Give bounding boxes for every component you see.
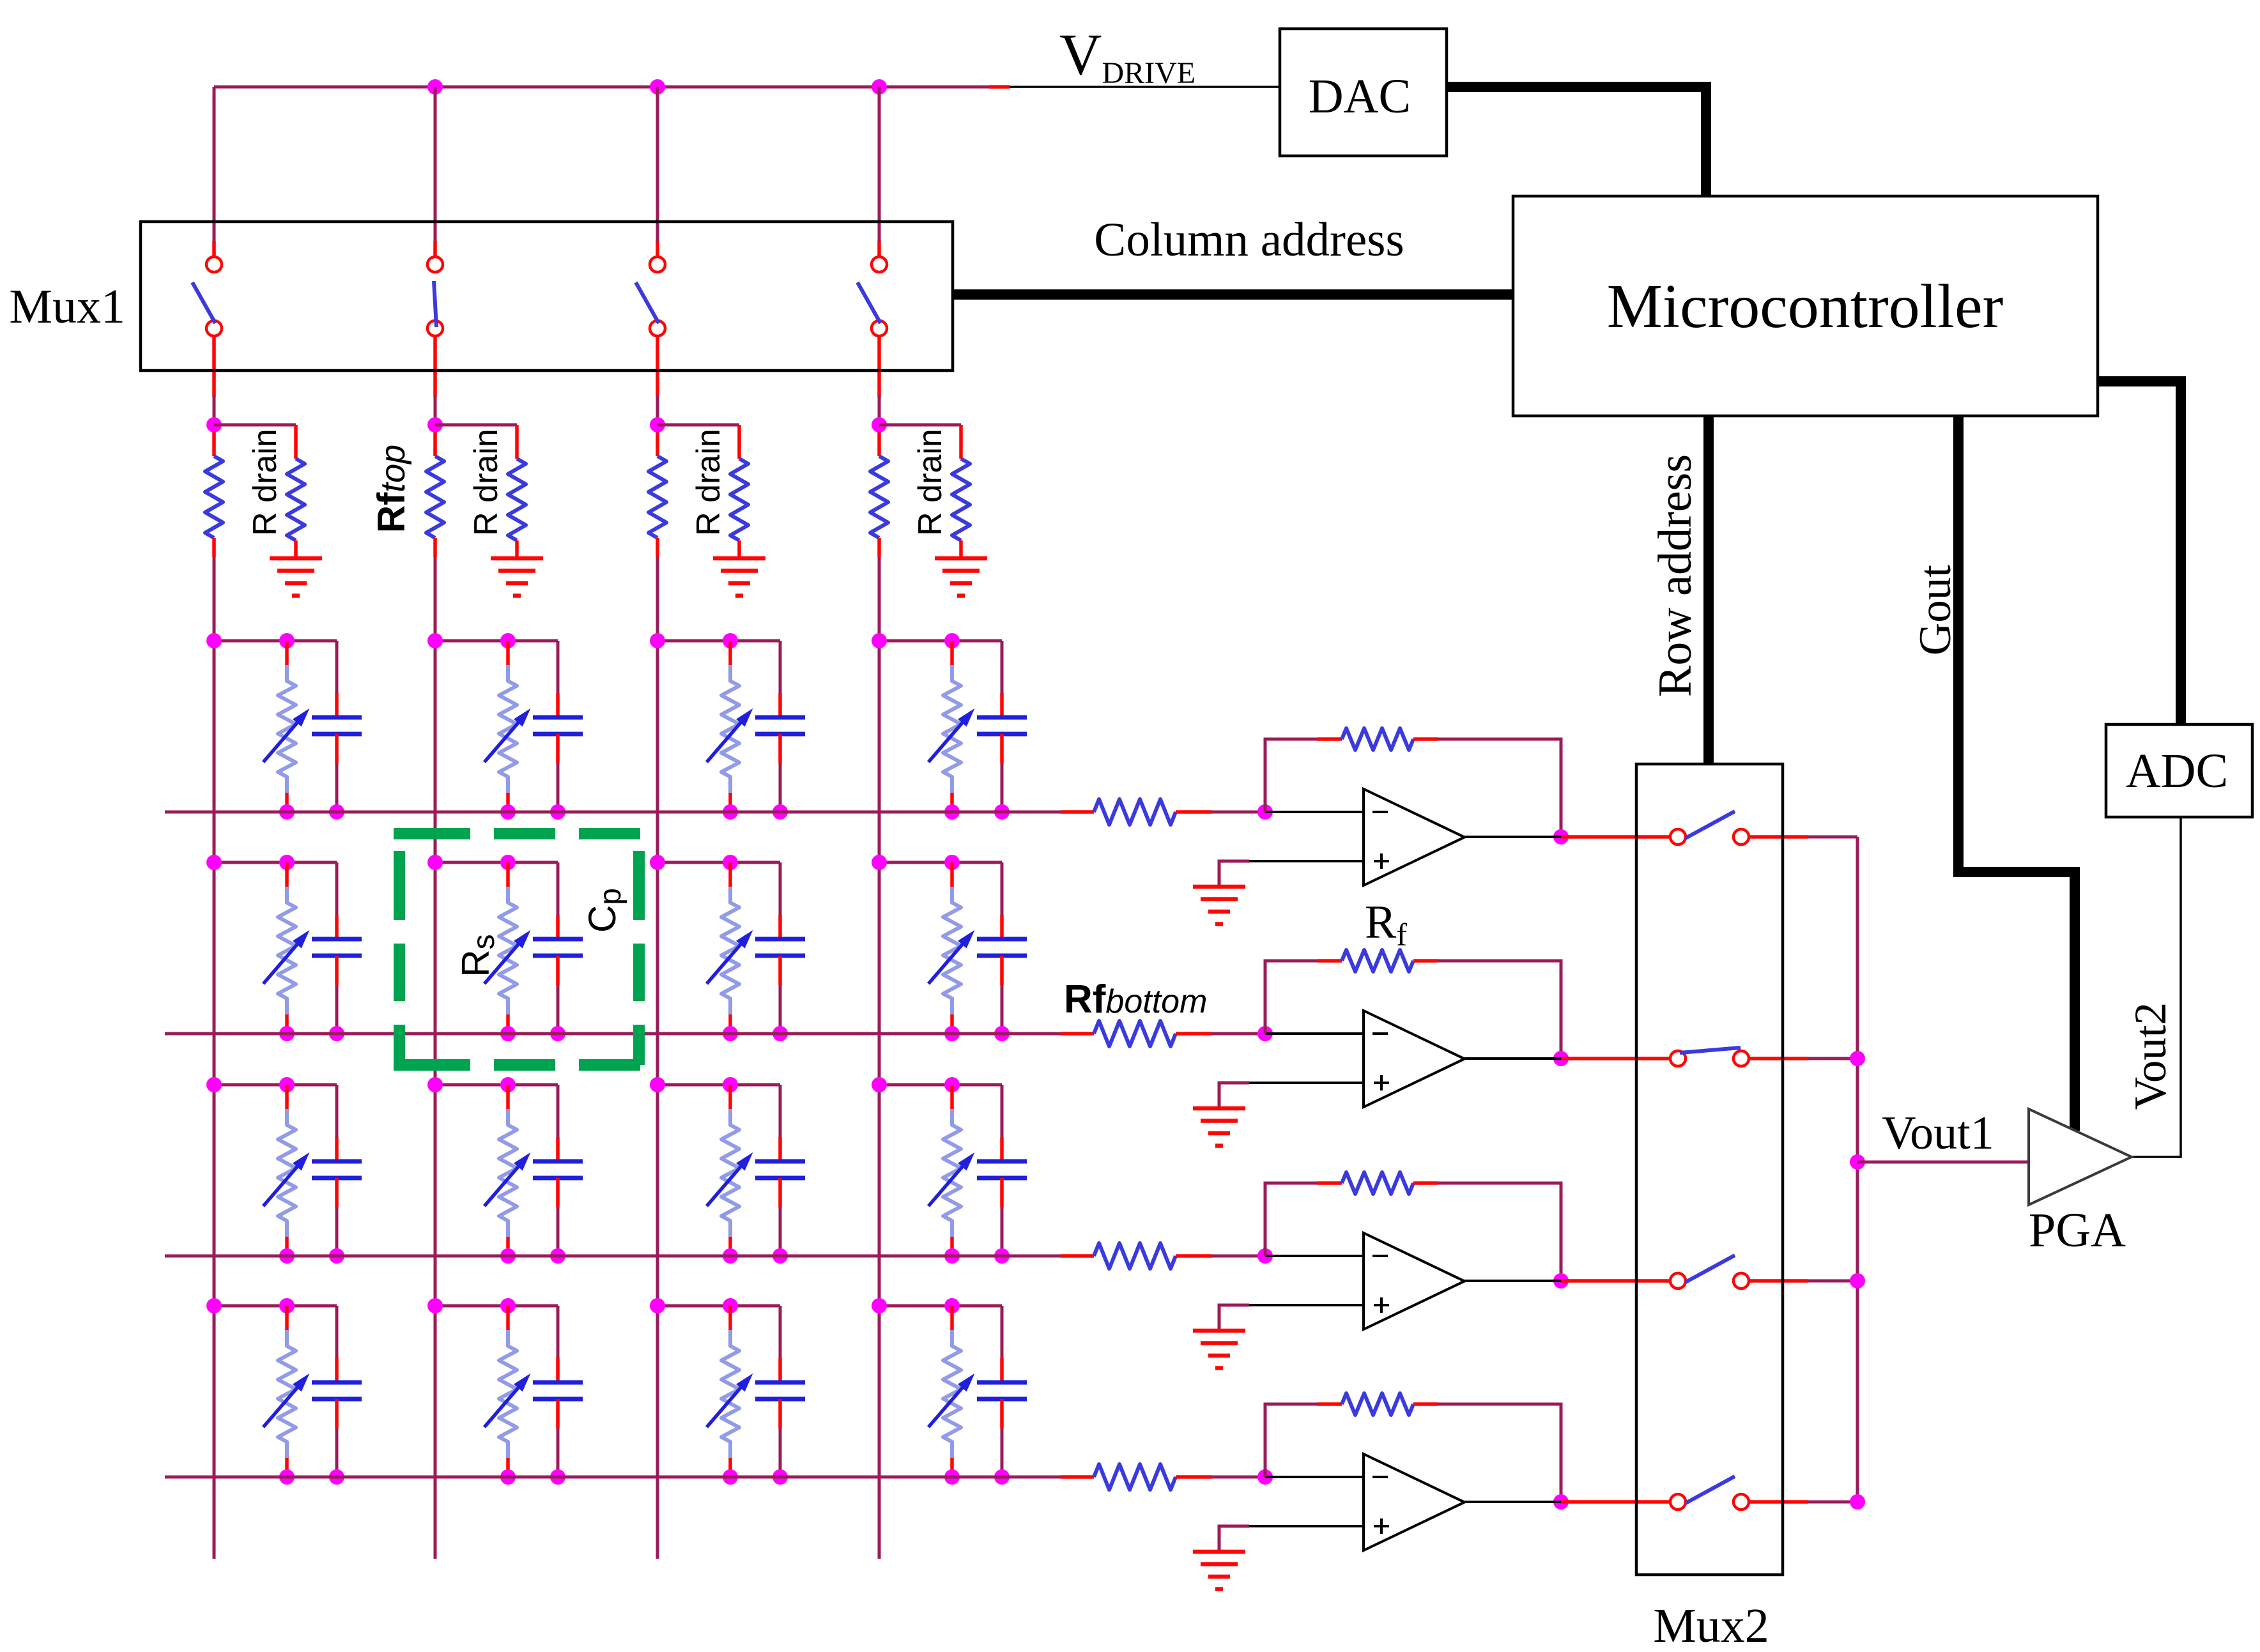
svg-text:Vout1: Vout1 <box>1882 1107 1994 1159</box>
svg-text:Rftop: Rftop <box>370 445 413 533</box>
svg-text:Rfbottom: Rfbottom <box>1064 977 1207 1021</box>
svg-text:R drain: R drain <box>247 429 284 536</box>
svg-text:Mux2: Mux2 <box>1653 1599 1769 1649</box>
svg-text:R drain: R drain <box>912 429 949 536</box>
svg-text:Row address: Row address <box>1649 454 1702 697</box>
svg-text:DAC: DAC <box>1309 70 1411 123</box>
svg-text:Column address: Column address <box>1094 213 1404 266</box>
svg-text:Microcontroller: Microcontroller <box>1607 272 2003 341</box>
svg-text:PGA: PGA <box>2029 1204 2126 1257</box>
svg-text:Mux1: Mux1 <box>9 280 125 333</box>
svg-text:ADC: ADC <box>2126 744 2228 798</box>
svg-text:R drain: R drain <box>690 429 727 536</box>
svg-text:Gout: Gout <box>1910 565 1960 655</box>
svg-text:R drain: R drain <box>468 429 505 536</box>
svg-text:Vout2: Vout2 <box>2126 1002 2176 1110</box>
